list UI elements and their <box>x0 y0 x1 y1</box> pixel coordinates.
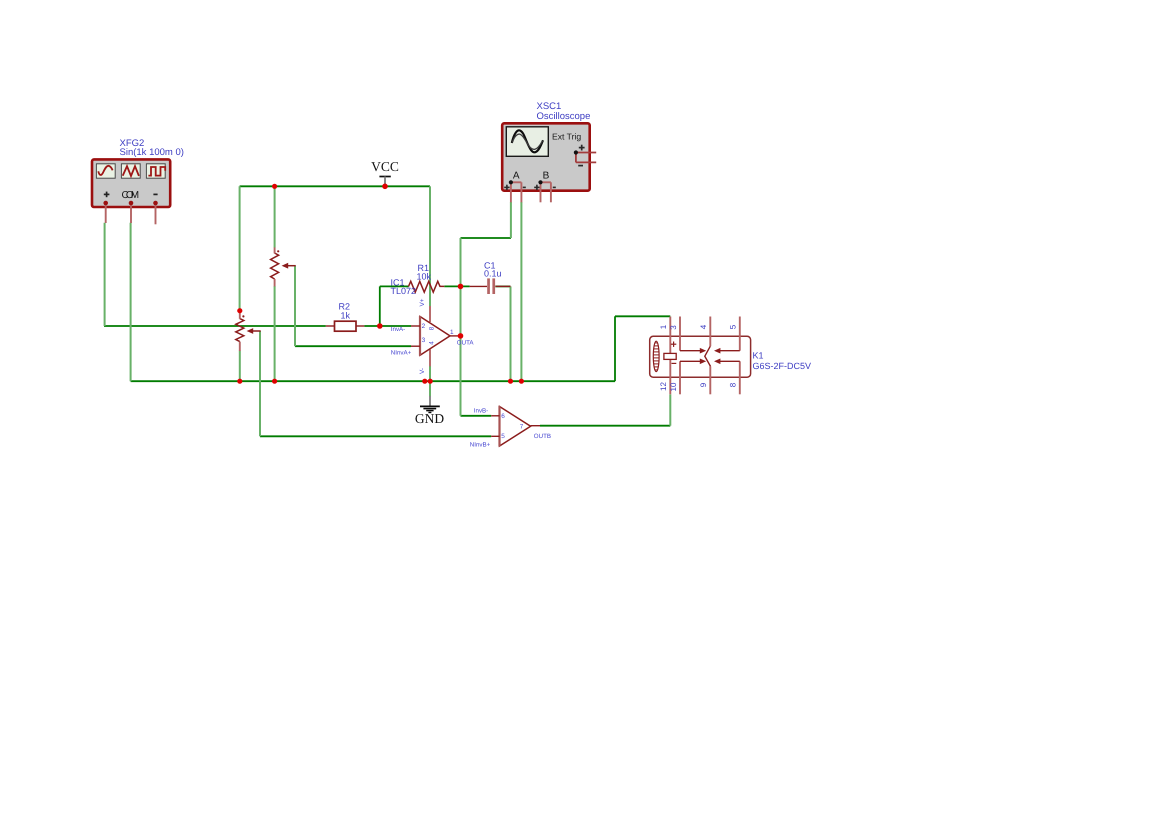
svg-text:10k: 10k <box>417 271 432 281</box>
svg-text:1: 1 <box>659 324 668 329</box>
svg-text:10: 10 <box>669 382 678 391</box>
svg-text:8: 8 <box>728 382 737 387</box>
svg-text:8: 8 <box>429 326 436 330</box>
svg-text:OUTB: OUTB <box>534 433 551 440</box>
svg-text:1k: 1k <box>341 310 351 320</box>
svg-text:COM: COM <box>122 190 140 201</box>
svg-text:InvB-: InvB- <box>474 407 488 414</box>
svg-text:1: 1 <box>450 329 454 336</box>
svg-text:Ext Trig: Ext Trig <box>552 131 581 141</box>
svg-text:3: 3 <box>422 337 426 344</box>
svg-text:GND: GND <box>415 411 444 426</box>
svg-text:V-: V- <box>419 368 426 374</box>
svg-text:TL072: TL072 <box>391 286 417 296</box>
svg-text:Oscilloscope: Oscilloscope <box>537 111 591 122</box>
svg-text:A: A <box>513 171 520 182</box>
svg-text:12: 12 <box>659 382 668 391</box>
svg-text:7: 7 <box>520 424 524 431</box>
svg-text:NInvB+: NInvB+ <box>470 441 491 448</box>
svg-text:4: 4 <box>429 341 436 345</box>
svg-text:5: 5 <box>728 324 737 329</box>
svg-text:VCC: VCC <box>371 159 399 174</box>
svg-text:B: B <box>543 171 550 182</box>
svg-text:6: 6 <box>501 413 505 420</box>
svg-text:4: 4 <box>699 324 708 329</box>
svg-text:5: 5 <box>501 433 505 440</box>
svg-text:Sin(1k 100m 0): Sin(1k 100m 0) <box>120 147 184 158</box>
svg-text:2: 2 <box>422 323 426 330</box>
svg-text:G6S-2F-DC5V: G6S-2F-DC5V <box>753 361 812 371</box>
svg-text:0.1u: 0.1u <box>484 269 502 279</box>
svg-text:OUTA: OUTA <box>457 340 475 347</box>
svg-text:V+: V+ <box>419 298 426 306</box>
svg-text:NInvA+: NInvA+ <box>391 349 412 356</box>
svg-text:9: 9 <box>699 382 708 387</box>
svg-text:3: 3 <box>669 325 678 330</box>
svg-text:InvA-: InvA- <box>391 326 405 333</box>
svg-text:K1: K1 <box>753 351 764 361</box>
